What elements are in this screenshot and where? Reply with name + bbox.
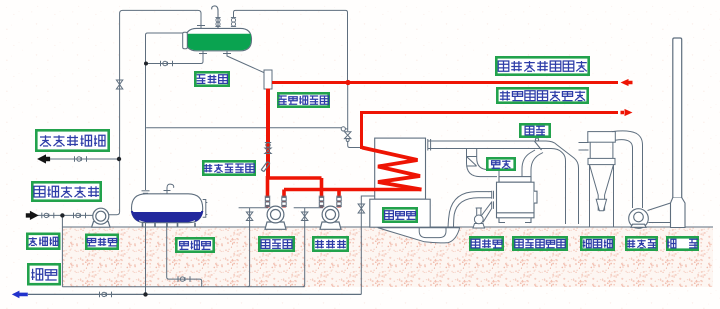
valve on discharge line bbox=[75, 156, 87, 162]
circulation pump 1 bbox=[265, 206, 286, 229]
label gufengji bbox=[470, 237, 502, 249]
heater pedestal bbox=[370, 199, 430, 227]
junction dot bbox=[144, 62, 148, 66]
label reyouguolvqi bbox=[203, 161, 254, 174]
flue duct from furnace to cyclone bbox=[428, 141, 589, 224]
wire: expansion tank vent header to return line bbox=[234, 10, 348, 82]
label guolvqi bbox=[27, 234, 59, 249]
valve on pump riser x=284 bbox=[281, 196, 287, 206]
label youqifenliqi bbox=[278, 93, 328, 106]
expansion tank (膨胀槽) bbox=[186, 28, 252, 50]
oil-gas separator vessel bbox=[264, 70, 272, 89]
tee tick at expansion tank top nozzle bbox=[197, 25, 205, 27]
cyclone outlet duct to fan bbox=[612, 131, 643, 208]
ground hatch texture block bbox=[63, 228, 713, 288]
label jiarelu bbox=[383, 208, 416, 221]
blue arrow: blow down (points left) bbox=[12, 291, 28, 299]
storage tank drain bbox=[167, 223, 202, 287]
heater coil (red zigzag) bbox=[362, 148, 422, 190]
junction dot discharge/riser bbox=[117, 157, 121, 161]
preheater flue connection curve up to duct bbox=[522, 150, 543, 177]
valve on pump riser x=339 bbox=[336, 196, 342, 206]
furnace under-duct U bbox=[419, 228, 446, 238]
tick valve at storage tank top nozzle bbox=[142, 191, 150, 194]
wire: vertical from return junction down to heater inlet bbox=[348, 83, 361, 148]
valve on pump riser x=267.5 bbox=[265, 196, 271, 206]
tick bbox=[223, 53, 231, 55]
valves on drop bbox=[265, 143, 271, 154]
red pipe: separator to hot-oil filter drop bbox=[266, 89, 270, 179]
label conghuiyou bbox=[496, 57, 588, 74]
wire: tank nozzle to oil-gas separator (diagonal) bbox=[227, 51, 266, 74]
expansion tank vent hook bbox=[212, 6, 218, 28]
handwheel valve at line end bbox=[341, 127, 348, 131]
wire: heat oil discharge line bbox=[49, 158, 119, 160]
filter symbol on injection line bbox=[42, 213, 54, 219]
red pipe: return from users (从用热设备回油) bbox=[272, 81, 618, 84]
label chuchenqi bbox=[581, 237, 613, 249]
label zhurure bbox=[32, 182, 100, 200]
black arrow: oil discharge (points left) bbox=[38, 155, 49, 163]
heater furnace box bbox=[375, 138, 426, 199]
valve circles on tank nozzle right bbox=[231, 18, 236, 27]
butterfly valve on branch drop bbox=[467, 157, 477, 167]
tick bbox=[199, 53, 207, 55]
circulation pump 2 bbox=[320, 206, 341, 229]
pump drain line at x=249.6 bbox=[239, 208, 268, 287]
label daorechu bbox=[36, 130, 108, 150]
air preheater (空气预热器) bbox=[497, 177, 538, 223]
label xianggongyou bbox=[497, 88, 587, 102]
valve on tank drain line bbox=[161, 61, 173, 67]
flue branch drop into preheater top bbox=[467, 149, 500, 177]
junction dot on injection line bbox=[60, 213, 64, 217]
blower (鼓风机) bbox=[473, 201, 494, 228]
chimney stack bbox=[673, 38, 682, 198]
label xunhuanbeng2 bbox=[313, 237, 347, 250]
label dief2 bbox=[487, 158, 514, 169]
furnace foundation wedge (white over texture) bbox=[378, 228, 460, 243]
wire: make-up oil sub header bbox=[62, 286, 304, 288]
valve circles on vent nozzle bbox=[215, 18, 220, 27]
red arrowhead return (points left) bbox=[621, 79, 633, 86]
valve on left riser bbox=[116, 80, 122, 89]
wire: oil injection line bbox=[38, 215, 93, 286]
butterfly valve on flue duct bbox=[535, 138, 542, 150]
white mask above foundation line bbox=[378, 224, 460, 228]
cyclone dust collector (除尘器) bbox=[588, 132, 616, 227]
hot air duct preheater to furnace (big sweep) bbox=[448, 191, 494, 228]
label zhuyoucao bbox=[176, 238, 213, 251]
induced draft fan (引风机) bbox=[629, 203, 671, 228]
storage tank legs bbox=[143, 223, 196, 227]
chimney base bbox=[671, 198, 686, 228]
red pipe: pump discharge header into heater bbox=[284, 190, 339, 208]
blow-down main line (排污) bbox=[28, 293, 361, 295]
label paiwu bbox=[28, 264, 59, 284]
storage tank (贮油槽) bbox=[132, 194, 203, 223]
storage tank vent hook bbox=[164, 184, 174, 194]
injection pump (注油泵) bbox=[92, 208, 110, 227]
check valve on vertical bbox=[345, 132, 351, 142]
red pipe: pump suction header bbox=[268, 176, 322, 208]
black arrow: inject oil (points right) bbox=[26, 212, 37, 220]
wire: injection riser to expansion tank top header bbox=[108, 10, 202, 214]
junction dot blow-down bbox=[143, 292, 147, 296]
red junction dot on return line bbox=[345, 80, 350, 85]
pump drain line at x=304.7 bbox=[294, 208, 323, 287]
label yancong bbox=[667, 237, 698, 249]
wire: heater drain to blow-down line bbox=[361, 196, 374, 294]
wire: expansion level line to storage tank bbox=[146, 33, 187, 294]
ground / floor line bbox=[63, 226, 714, 228]
label kongqiyureqi bbox=[513, 237, 566, 249]
wire: expansion feed line to heater inlet bbox=[146, 127, 341, 129]
label yinfengji bbox=[626, 237, 656, 249]
label dief1 bbox=[520, 124, 549, 136]
label pengzhangcao bbox=[195, 72, 228, 85]
valve on pump riser x=321.5 bbox=[319, 196, 325, 206]
storage tank level gauge right bbox=[203, 200, 208, 218]
red arrowhead supply (points right) bbox=[621, 109, 633, 116]
wire: expansion tank drain to riser bbox=[146, 51, 203, 64]
valve on injection line bbox=[74, 213, 86, 219]
valve on tank drain bbox=[178, 276, 190, 282]
hot oil filter (diagonal cartridge) bbox=[261, 162, 270, 172]
flange at furnace outlet bbox=[428, 139, 431, 151]
label zhuyoubeng bbox=[86, 235, 117, 249]
valve on blow-down bbox=[100, 292, 112, 298]
expansion tank level gauge left bbox=[183, 32, 188, 48]
red pipe: supply to users (向用热设备供油) bbox=[360, 113, 618, 150]
label xunhuanbeng1 bbox=[259, 237, 293, 250]
